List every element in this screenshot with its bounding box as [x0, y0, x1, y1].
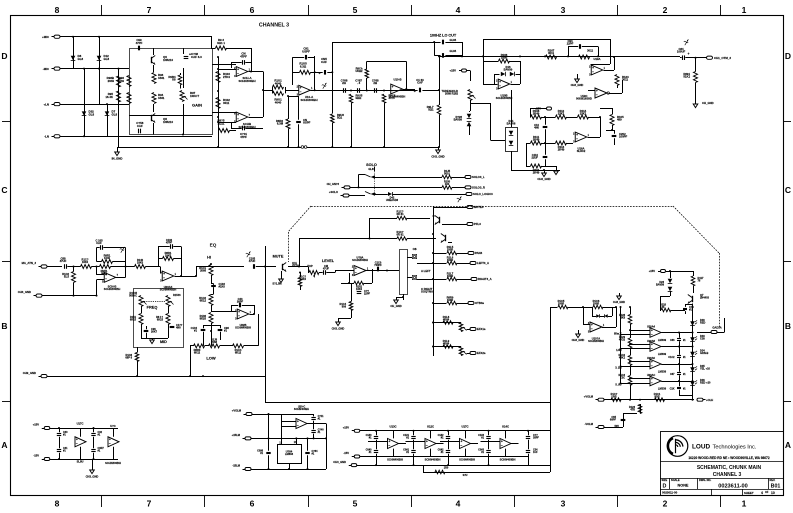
svg-text:CH3_GND: CH3_GND [571, 83, 584, 87]
opto diodes [509, 131, 514, 135]
transistor Q12 [439, 217, 441, 223]
pad +VOLM [598, 398, 604, 401]
svg-text:LM339: LM339 [658, 386, 667, 390]
wire mute gnd [281, 271, 283, 279]
svg-text:5001: 5001 [444, 172, 450, 176]
node A3 [83, 68, 85, 70]
level pot R160 [309, 271, 319, 275]
svg-text:4N0: 4N0 [176, 326, 181, 330]
capacitor C105a [100, 245, 102, 250]
svg-text:4: 4 [761, 491, 763, 495]
resistor R141 fb [102, 260, 113, 264]
node ladder joins [217, 56, 219, 58]
resistor R159 [442, 186, 452, 190]
svg-text:22PF: 22PF [364, 292, 371, 296]
svg-text:USPF: USPF [302, 49, 310, 53]
wire q8 [153, 104, 155, 112]
svg-text:6K12: 6K12 [200, 299, 207, 303]
wire low row [190, 345, 194, 347]
svg-text:PFL3: PFL3 [474, 222, 481, 226]
signal icon out2 [684, 41, 688, 43]
node low1 [189, 375, 191, 377]
svg-text:+15V: +15V [343, 426, 350, 430]
jumper W1 [301, 146, 304, 149]
svg-text:1040: 1040 [104, 256, 110, 260]
pad CH3_GND low [41, 375, 47, 378]
wire freq to rows [137, 347, 139, 353]
diode D26 BAV99 [668, 279, 673, 283]
wire u16a out [588, 137, 601, 139]
dashed boundary left drop [288, 232, 290, 262]
svg-text:2K49: 2K49 [533, 138, 540, 142]
wire u10b loop [494, 74, 496, 84]
wire r9l7 [439, 90, 441, 105]
pad A_LEFT [470, 262, 476, 265]
svg-text:1UF: 1UF [533, 451, 538, 454]
svg-text:SCHN400BH: SCHN400BH [496, 96, 512, 100]
svg-text:22PF: 22PF [567, 42, 574, 46]
capacitor C91b feedback [305, 55, 307, 60]
svg-text:100R: 100R [593, 302, 599, 306]
resistor R891 [694, 72, 698, 83]
pad +15V threshold [462, 69, 467, 72]
wire line- rail [60, 136, 212, 138]
svg-text:47UF: 47UF [60, 259, 67, 263]
wire caps eq [203, 325, 205, 328]
svg-text:SCHN400BH: SCHN400BH [500, 458, 516, 462]
svg-text:DWG. NO.: DWG. NO. [699, 478, 711, 482]
comparator U15C [650, 359, 661, 369]
svg-text:909: 909 [342, 305, 347, 309]
svg-text:D: D [1, 51, 7, 61]
svg-text:+15LM: +15LM [232, 433, 241, 437]
bl top rail [50, 428, 118, 430]
svg-text:U17C: U17C [461, 425, 468, 429]
wire cap links [679, 333, 681, 338]
svg-text:GAD3A: GAD3A [712, 326, 721, 330]
wire r92 fb [211, 48, 216, 50]
svg-text:SCHN400BH: SCHN400BH [235, 326, 251, 330]
wire solo row1 [375, 177, 442, 179]
wire u22b [231, 305, 238, 307]
svg-text:6: 6 [250, 5, 255, 15]
svg-text:3481: 3481 [158, 96, 165, 100]
op-amp U20C [296, 419, 307, 429]
svg-text:+: + [414, 90, 416, 94]
opto D41 box [506, 128, 518, 152]
svg-text:26K7: 26K7 [151, 330, 158, 334]
wire comp row1 [529, 117, 532, 119]
svg-text:CAF: CAF [321, 60, 327, 64]
svg-text:68PF: 68PF [610, 418, 617, 422]
svg-text:−: − [237, 71, 239, 75]
wire locut row2b [434, 55, 440, 57]
svg-text:SCHN400BH: SCHN400BH [300, 98, 317, 102]
svg-text:2: 2 [663, 5, 668, 15]
wire c103b [545, 117, 547, 125]
svg-text:MUTE: MUTE [273, 255, 284, 259]
lm rail3 [251, 469, 326, 471]
svg-text:MID: MID [160, 340, 167, 344]
svg-text:4K32: 4K32 [619, 338, 626, 342]
svg-text:499: 499 [617, 118, 622, 122]
svg-text:+VOLM: +VOLM [584, 395, 594, 399]
wire q6 collector [153, 48, 155, 55]
svg-text:−: − [238, 314, 240, 318]
svg-text:C: C [1, 185, 7, 195]
svg-text:A: A [1, 440, 7, 450]
LED D36 [690, 381, 695, 386]
capacitor C84 output [682, 55, 684, 60]
svg-text:2K49: 2K49 [558, 148, 565, 152]
LED D33 [690, 337, 695, 342]
svg-text:−: − [591, 327, 593, 331]
svg-text:22K1: 22K1 [580, 112, 587, 116]
svg-text:CAF: CAF [96, 241, 102, 245]
svg-text:C86: C86 [670, 339, 675, 342]
svg-text:+OLH: +OLH [706, 398, 713, 402]
resistor R151 [139, 314, 143, 325]
svg-text:C87: C87 [670, 373, 675, 376]
svg-text:CH1_OTM_3: CH1_OTM_3 [714, 56, 731, 60]
wire d51 loop [592, 307, 594, 316]
wire diode column 1 [73, 37, 75, 69]
LED D30 [690, 321, 695, 326]
svg-text:GL8: GL8 [104, 57, 110, 61]
capacitor C98a [343, 88, 345, 93]
wire meter mid [568, 307, 593, 309]
resistor R1C2 hi [209, 295, 213, 306]
svg-text:3Ω1 1: 3Ω1 1 [217, 41, 225, 45]
svg-text:SOLO3_R: SOLO3_R [472, 186, 485, 190]
capacitor C65 [621, 419, 626, 421]
pad CH_GND solo [344, 186, 350, 189]
svg-text:5Ω1: 5Ω1 [337, 116, 343, 120]
svg-text:10K0: 10K0 [82, 260, 89, 264]
svg-text:8: 8 [55, 5, 60, 15]
capacitor C87 [677, 372, 681, 374]
resistor R126 [638, 405, 642, 414]
svg-text:SCHN400BH: SCHN400BH [238, 79, 255, 83]
band cell U17C caps [446, 436, 450, 438]
capacitor C44 [442, 40, 444, 45]
transistor Q8 [151, 115, 153, 121]
wire q6 emitter [153, 65, 155, 72]
svg-text:U0Ω2: U0Ω2 [355, 69, 363, 73]
pad OLH [697, 398, 703, 401]
diode D100 BAV99 [467, 114, 472, 118]
pad -15V bl [44, 458, 50, 461]
resistor chain R129 [628, 338, 632, 348]
resistor R100 [273, 91, 284, 95]
svg-text:CH_GND: CH_GND [390, 304, 401, 308]
wire line+ rail [60, 104, 129, 106]
resistor R9C8 [382, 94, 386, 103]
wire filter fb [366, 61, 368, 69]
svg-text:CH3_GND: CH3_GND [333, 460, 346, 464]
svg-text:7: 7 [147, 499, 152, 509]
wire mute out [288, 266, 308, 268]
wire c73 stub [685, 304, 687, 307]
svg-text:S?U: S?U [463, 474, 468, 477]
svg-text:EFX2a: EFX2a [477, 351, 486, 355]
op-amp U12B [236, 112, 248, 122]
svg-text:CAF: CAF [417, 81, 423, 85]
svg-text:SCHEMATIC, CHUNK MAIN: SCHEMATIC, CHUNK MAIN [697, 465, 762, 471]
svg-text:35PF: 35PF [533, 436, 539, 439]
svg-text:PAN3: PAN3 [475, 251, 483, 255]
resistor R114 [578, 115, 589, 119]
resistor R99 [219, 129, 230, 133]
svg-text:10K0: 10K0 [165, 254, 172, 258]
pad GAD3A [711, 331, 717, 334]
svg-text:16.4K: 16.4K [105, 95, 114, 99]
wire r147 [299, 238, 397, 240]
svg-text:C38: C38 [700, 337, 705, 341]
pad +15V led [661, 270, 666, 273]
pad -15V band [354, 455, 360, 458]
wire gad3a [697, 332, 711, 334]
svg-text:U14C: U14C [502, 425, 509, 429]
capacitor C33 [91, 449, 95, 451]
svg-text:4K64: 4K64 [443, 318, 450, 322]
capacitor C43 [239, 303, 241, 308]
resistor R110 [531, 164, 542, 168]
pad CH1_OTM_3 [707, 56, 713, 59]
diode D8 [71, 56, 76, 60]
wire hi col2 [213, 284, 215, 285]
wire level2 [326, 272, 335, 274]
wire u19a [604, 70, 615, 72]
wire gnd eq rail [42, 295, 97, 297]
svg-text:D: D [785, 51, 791, 61]
capacitor C84b [305, 452, 309, 454]
band gnd rail [357, 465, 550, 467]
op-amp U22B [237, 309, 249, 319]
resistor row PAN [447, 251, 457, 255]
resistor R152 [166, 314, 170, 325]
wire eq bottom bus CH3_GND [47, 376, 265, 378]
op-amp U19A [591, 65, 603, 75]
pot row EFX2 [459, 347, 463, 356]
grid tick marks top/bottom [101, 5, 103, 16]
op-amp U12A [236, 67, 248, 77]
wire bus top [433, 206, 435, 208]
svg-text:100R: 100R [447, 248, 453, 252]
svg-text:GL8: GL8 [112, 112, 118, 116]
wire threshold [470, 71, 472, 82]
capacitor C103b [543, 126, 548, 128]
signal icon eq2 [246, 253, 250, 255]
band cell U12C wires [413, 431, 415, 436]
fader symbol O$1 [412, 254, 416, 258]
svg-text:−: − [596, 93, 598, 97]
svg-text:−: − [592, 70, 594, 74]
wire c110 [545, 143, 547, 155]
pad MA_ATN_3 [41, 265, 47, 268]
wire c65 [623, 414, 625, 420]
svg-text:RED: RED [700, 321, 706, 325]
wire chain spine [630, 307, 632, 315]
LED D34 [690, 352, 695, 357]
wire to sum resistors [249, 71, 252, 73]
dashed boundary diagonal left [288, 206, 311, 232]
ground CH_GND out [693, 104, 698, 108]
resistor R161 fb [354, 281, 364, 285]
resistor row EFX1b [443, 321, 453, 325]
svg-text:SCHN400BH: SCHN400BH [389, 95, 405, 99]
svg-text:3: 3 [561, 5, 566, 15]
svg-text:43K1: 43K1 [619, 356, 626, 360]
wire meter feed [550, 307, 558, 309]
svg-text:3011: 3011 [587, 49, 593, 53]
op-amp U16A [575, 132, 587, 142]
wire left bias branch [118, 69, 120, 147]
ground fader [394, 300, 399, 304]
dashed boundary diagonal right [673, 206, 719, 253]
svg-text:3: 3 [561, 499, 566, 509]
svg-text:2K: 2K [661, 305, 664, 309]
wire filter out [402, 89, 415, 91]
wire u11b in [96, 267, 98, 275]
svg-text:CHANNEL 3: CHANNEL 3 [259, 23, 289, 29]
resistor R101 [273, 85, 284, 89]
pad PAN3 [468, 252, 474, 255]
svg-text:2649: 2649 [118, 79, 125, 83]
wire row b [433, 303, 447, 305]
capacitor C99 [138, 46, 140, 51]
svg-text:−: − [651, 381, 653, 385]
resistor R1C6 [593, 305, 603, 309]
svg-text:U20A4: U20A4 [647, 325, 656, 329]
wire r102b c93 [288, 96, 290, 119]
pad SOLO3_R [465, 186, 471, 189]
wire opto [511, 90, 513, 127]
svg-text:LOW: LOW [206, 356, 216, 361]
band cell U13C wires [376, 431, 378, 436]
svg-text:-15V: -15V [33, 454, 39, 458]
input pad J1 MIC+ [54, 35, 60, 38]
pad +15V bl [44, 427, 50, 430]
capacitor C98 [138, 129, 140, 134]
svg-text:−: − [392, 89, 394, 93]
capacitor C103 hi [211, 285, 216, 287]
svg-text:10KCT: 10KCT [190, 94, 199, 98]
svg-text:CH3_GND: CH3_GND [537, 177, 550, 181]
svg-text:CH3_GND: CH3_GND [332, 327, 345, 331]
svg-text:?00PF: ?00PF [374, 263, 382, 267]
wire bl caps2 [93, 428, 95, 432]
resistor R146 [397, 216, 407, 220]
resistor R157 [442, 175, 452, 179]
svg-text:+15V: +15V [33, 423, 40, 427]
svg-text:7: 7 [147, 5, 152, 15]
wire u12a inputs [212, 64, 236, 66]
svg-text:2K49: 2K49 [533, 171, 540, 175]
resistor R103 [216, 72, 220, 83]
svg-text:SL8U: SL8U [77, 460, 84, 464]
wire u20a4 fb [158, 247, 160, 267]
svg-text:−: − [300, 90, 302, 94]
ground led gnd [619, 293, 621, 296]
node A4 [98, 68, 100, 70]
pad EFX1 [470, 328, 476, 331]
resistor R98 [117, 76, 121, 87]
op-amp U11B [104, 273, 116, 283]
diode D32 [82, 111, 87, 115]
svg-text:10K0: 10K0 [137, 261, 144, 265]
svg-text:U12C: U12C [427, 425, 434, 429]
resistor R167 bus [546, 55, 557, 59]
wire row3 [526, 166, 531, 168]
main bus D [439, 56, 680, 58]
bl bottom rail [50, 459, 118, 461]
svg-text:C1C2: C1C2 [668, 356, 675, 359]
pad A_RIGHT [471, 278, 477, 281]
wire thr down [470, 101, 472, 112]
svg-text:0023611-00: 0023611-00 [662, 491, 678, 495]
title block info row dividers [669, 478, 671, 489]
band cell U17C wires [448, 431, 450, 436]
wire fader [398, 270, 399, 272]
capacitor C100 [377, 267, 379, 272]
svg-text:Technologies Inc.: Technologies Inc. [713, 444, 757, 450]
svg-text:SCHN400BH: SCHN400BH [387, 458, 403, 462]
svg-text:K0R: K0R [654, 395, 659, 399]
capacitor C31 [57, 449, 61, 451]
svg-text:4N0: 4N0 [534, 126, 539, 130]
svg-text:LEFT3_A: LEFT3_A [477, 261, 489, 265]
lm rail1 [252, 414, 314, 416]
wire u20a4 out [175, 276, 197, 278]
svg-text:SL8C2: SL8C2 [577, 149, 586, 153]
signal icon eq1 [120, 249, 124, 251]
svg-text:6K12: 6K12 [235, 351, 242, 355]
svg-text:4K64: 4K64 [443, 342, 450, 346]
wire r142 [73, 267, 75, 272]
svg-text:MA_ATN_3: MA_ATN_3 [22, 261, 37, 265]
svg-text:16220 WOOD-RED RD NE • WOODINV: 16220 WOOD-RED RD NE • WOODINVILLE, WA 9… [688, 456, 770, 460]
resistor R163 shunt [298, 278, 302, 287]
svg-text:2K8: 2K8 [620, 316, 625, 320]
capacitor C102 [170, 244, 172, 249]
op-amp U10B [498, 79, 510, 89]
wire gnd drop [117, 146, 119, 148]
wire row al [417, 263, 447, 265]
resistor R9U5 [349, 94, 353, 103]
svg-text:U?C: U?C [110, 424, 116, 428]
wire u10a meter [602, 327, 616, 329]
band cell U14C caps [486, 436, 490, 438]
svg-text:SOLO3_L: SOLO3_L [472, 175, 485, 179]
resistor R144 [100, 265, 111, 269]
pad +15V comp [547, 107, 552, 110]
wire r9u8 gnd [332, 123, 334, 147]
svg-text:CAF: CAF [137, 124, 143, 128]
wire to u20a4 [146, 266, 161, 268]
svg-text:1: 1 [742, 5, 747, 15]
grid tick marks left/right [2, 121, 10, 123]
wire hi col3 [211, 293, 213, 296]
band +15 rail [360, 430, 536, 432]
svg-text:2068 R162: 2068 R162 [445, 92, 459, 96]
svg-text:+: + [687, 52, 689, 56]
svg-text:5Ω1: 5Ω1 [428, 108, 434, 112]
svg-text:3011: 3011 [548, 51, 554, 55]
svg-text:SOLO_LOGIC3: SOLO_LOGIC3 [473, 192, 493, 196]
svg-text:U10-B: U10-B [394, 78, 402, 82]
wire eq input [47, 266, 62, 268]
